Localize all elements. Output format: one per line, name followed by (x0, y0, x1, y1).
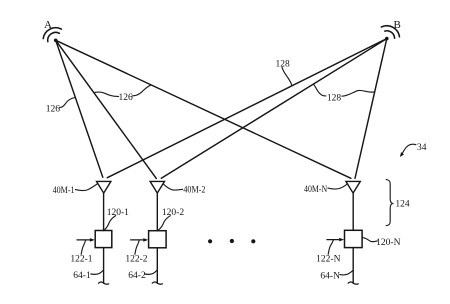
svg-text:64-N: 64-N (320, 272, 340, 282)
line break squiggle 64-N (348, 282, 358, 284)
node B arcs (385, 31, 395, 38)
arrowhead 34 (400, 152, 404, 157)
wire antenna2 feed (156, 193, 158, 231)
leader 122-2 (135, 241, 139, 255)
svg-text:120-N: 120-N (376, 238, 400, 248)
arrowhead box2 (143, 238, 148, 242)
antenna 40M-N (346, 181, 360, 193)
svg-text:40M-N: 40M-N (304, 185, 327, 195)
leader 128 lower-left (314, 84, 326, 96)
node A arcs (48, 32, 60, 41)
svg-text:122-N: 122-N (316, 255, 340, 265)
leader 120-N (363, 238, 378, 242)
leader 126 left (60, 97, 76, 107)
box 120-1 (95, 231, 112, 248)
svg-text:120-2: 120-2 (162, 208, 184, 218)
ellipsis dots (208, 239, 255, 244)
wire path 128 B to antenna 40M-1 (107, 39, 387, 178)
wire below box2 (156, 248, 158, 283)
antenna 40M-2 (150, 181, 164, 193)
arrowhead boxN (339, 238, 344, 242)
arrow into box 120-2 (131, 239, 145, 241)
box 120-2 (149, 231, 167, 248)
brace 124 (386, 180, 392, 226)
leader 128 upper (282, 67, 292, 85)
leader 120-1 (104, 216, 115, 230)
svg-text:126: 126 (46, 105, 61, 115)
leader arrow 34 (402, 144, 416, 154)
svg-text:124: 124 (395, 200, 410, 210)
wire path 128 B to antenna 40M-2 (161, 39, 386, 179)
svg-text:120-1: 120-1 (107, 208, 129, 218)
wire below box1 (103, 248, 105, 284)
box 120-N (345, 230, 363, 247)
wire path 126 A to antenna 40M-2 (56, 40, 157, 178)
leader 64-2 (145, 270, 157, 274)
arrow into box 120-N (327, 239, 340, 241)
wire below boxN (352, 248, 354, 284)
leader 122-N (328, 240, 333, 254)
svg-text:128: 128 (327, 94, 342, 104)
svg-text:64-2: 64-2 (128, 271, 146, 281)
leader 64-1 (91, 270, 103, 274)
wire antennaN feed (352, 193, 354, 231)
svg-text:128: 128 (275, 60, 290, 70)
arrowhead box1 (90, 238, 95, 242)
svg-text:122-1: 122-1 (70, 255, 92, 265)
node B dot (385, 37, 389, 41)
leader 40M-N (328, 184, 347, 190)
svg-text:40M-2: 40M-2 (183, 186, 205, 196)
leader 126 mid-right (132, 85, 151, 96)
svg-text:64-1: 64-1 (73, 271, 91, 281)
leader 120-2 (158, 216, 170, 230)
svg-text:122-2: 122-2 (125, 255, 147, 265)
wire path 126 A to antenna 40M-N (56, 40, 351, 178)
line break squiggle 64-1 (99, 282, 109, 284)
svg-text:A: A (44, 19, 52, 31)
node A dot (54, 39, 58, 43)
leader 126 mid-left (94, 92, 119, 96)
leader 40M-1 (75, 184, 97, 191)
svg-text:34: 34 (417, 143, 427, 153)
leader 122-1 (81, 241, 85, 255)
leader 64-N (340, 270, 353, 275)
antenna 40M-1 (97, 181, 111, 193)
leader 128 lower-right (342, 90, 375, 96)
svg-text:126: 126 (118, 93, 133, 103)
leader 40M-2 (163, 184, 182, 190)
wire path 128 B to antenna 40M-N (355, 39, 387, 179)
wire antenna1 feed (103, 193, 105, 231)
svg-text:B: B (394, 19, 401, 31)
wire path 126 A to antenna 40M-1 (56, 40, 103, 177)
arrow into box 120-1 (77, 239, 91, 241)
line break squiggle 64-2 (152, 282, 162, 284)
svg-text:40M-1: 40M-1 (53, 186, 75, 196)
